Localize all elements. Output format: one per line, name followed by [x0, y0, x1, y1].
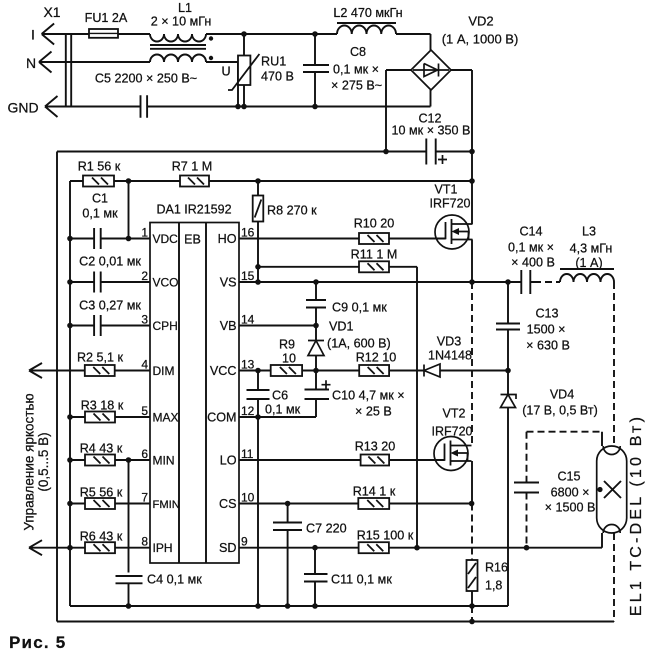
svg-text:0,1 мк ×: 0,1 мк × [508, 241, 554, 255]
svg-text:1: 1 [141, 226, 148, 240]
svg-text:(17 В, 0,5 Вт): (17 В, 0,5 Вт) [522, 404, 597, 418]
svg-text:SD: SD [219, 541, 237, 555]
svg-text:RU1: RU1 [261, 55, 286, 69]
svg-text:10 мк × 350 В: 10 мк × 350 В [392, 124, 471, 138]
svg-text:R6 43 к: R6 43 к [80, 530, 123, 544]
svg-text:DA1 IR21592: DA1 IR21592 [156, 203, 231, 217]
svg-text:LO: LO [220, 453, 237, 467]
svg-text:R8 270 к: R8 270 к [267, 204, 317, 218]
svg-text:R5 56 к: R5 56 к [80, 486, 123, 500]
svg-text:0,1 мк ×: 0,1 мк × [333, 63, 379, 77]
svg-text:C1: C1 [92, 192, 108, 206]
svg-text:VCO: VCO [153, 275, 179, 289]
svg-text:4,3 мГн: 4,3 мГн [570, 242, 613, 256]
svg-text:C3 0,27 мк: C3 0,27 мк [79, 299, 141, 313]
svg-text:C7 220: C7 220 [306, 522, 347, 536]
svg-text:L1: L1 [178, 1, 192, 15]
svg-text:0,1 мк: 0,1 мк [82, 207, 118, 221]
svg-text:(1 А): (1 А) [575, 256, 602, 270]
svg-text:R10 20: R10 20 [354, 217, 395, 231]
svg-text:CPH: CPH [153, 319, 178, 333]
svg-text:MAX: MAX [153, 410, 179, 424]
svg-text:L3: L3 [582, 225, 596, 239]
svg-text:R13 20: R13 20 [355, 440, 396, 454]
svg-text:R14 1 к: R14 1 к [353, 485, 396, 499]
svg-text:C4 0,1 мк: C4 0,1 мк [147, 573, 202, 587]
svg-text:HO: HO [218, 232, 237, 246]
svg-text:C11 0,1 мк: C11 0,1 мк [331, 573, 392, 587]
svg-text:EL1 TC-DEL (10 Вт): EL1 TC-DEL (10 Вт) [628, 414, 645, 616]
svg-text:VCC: VCC [210, 364, 237, 378]
svg-text:R15 100 к: R15 100 к [357, 529, 414, 543]
svg-text:R1 56 к: R1 56 к [78, 160, 121, 174]
svg-text:R11 1 M: R11 1 M [351, 248, 398, 262]
svg-text:C8: C8 [350, 45, 366, 59]
svg-text:× 630 В: × 630 В [526, 339, 570, 353]
svg-text:VD2: VD2 [468, 14, 493, 29]
svg-text:1,8: 1,8 [485, 579, 502, 593]
svg-text:2 × 10 мГн: 2 × 10 мГн [151, 15, 212, 29]
svg-text:× 275 В~: × 275 В~ [331, 79, 382, 93]
svg-text:15: 15 [241, 269, 255, 283]
svg-text:11: 11 [241, 447, 254, 461]
svg-text:R16: R16 [485, 561, 508, 575]
svg-text:× 25 В: × 25 В [355, 405, 392, 419]
svg-text:6: 6 [141, 447, 148, 461]
svg-text:EB: EB [184, 233, 201, 247]
svg-text:VS: VS [220, 275, 237, 289]
svg-text:(1 А, 1000 В): (1 А, 1000 В) [442, 32, 519, 47]
svg-text:VD3: VD3 [437, 335, 462, 349]
svg-text:1500 ×: 1500 × [527, 323, 566, 337]
svg-text:× 400 В: × 400 В [511, 256, 555, 270]
svg-text:C13: C13 [535, 307, 558, 321]
svg-text:N: N [26, 55, 36, 71]
svg-text:IRF720: IRF720 [432, 425, 473, 439]
svg-text:4: 4 [141, 358, 148, 372]
svg-text:VD4: VD4 [550, 388, 574, 402]
svg-text:16: 16 [241, 226, 255, 240]
svg-text:IRF720: IRF720 [430, 197, 471, 211]
svg-text:10: 10 [282, 352, 296, 366]
svg-text:L2 470 мкГн: L2 470 мкГн [333, 6, 402, 20]
svg-text:MIN: MIN [153, 453, 175, 467]
svg-text:R7 1 M: R7 1 M [172, 160, 213, 174]
svg-text:(1А, 600 В): (1А, 600 В) [327, 337, 391, 351]
svg-text:C6: C6 [272, 389, 288, 403]
svg-text:2: 2 [141, 269, 148, 283]
svg-text:Управление яркостью: Управление яркостью [22, 393, 37, 530]
svg-text:1N4148: 1N4148 [428, 349, 472, 363]
svg-text:VD1: VD1 [329, 320, 354, 334]
svg-text:R9: R9 [279, 338, 295, 352]
svg-text:9: 9 [241, 535, 248, 549]
svg-text:VT2: VT2 [443, 407, 466, 421]
svg-text:VB: VB [220, 319, 237, 333]
svg-text:C5 2200 × 250 В~: C5 2200 × 250 В~ [95, 72, 197, 86]
svg-text:GND: GND [7, 100, 38, 116]
svg-text:7: 7 [141, 491, 148, 505]
svg-text:X1: X1 [43, 4, 60, 20]
svg-text:Рис. 5: Рис. 5 [9, 633, 66, 652]
svg-text:13: 13 [241, 358, 255, 372]
svg-text:C14: C14 [519, 225, 542, 239]
svg-text:R2 5,1 к: R2 5,1 к [77, 351, 124, 365]
svg-text:5: 5 [141, 404, 148, 418]
svg-text:14: 14 [241, 313, 255, 327]
svg-text:C2 0,01 мк: C2 0,01 мк [79, 255, 141, 269]
svg-text:FMIN: FMIN [153, 499, 180, 511]
svg-text:(0,5...5 В): (0,5...5 В) [36, 432, 51, 491]
svg-text:C9 0,1 мк: C9 0,1 мк [332, 301, 387, 315]
svg-text:VDC: VDC [153, 232, 179, 246]
svg-text:R12 10: R12 10 [356, 351, 397, 365]
svg-text:× 1500 В: × 1500 В [545, 501, 596, 515]
svg-text:CS: CS [219, 497, 237, 511]
svg-text:I: I [31, 27, 35, 43]
svg-text:0,1 мк: 0,1 мк [265, 403, 301, 417]
svg-text:C15: C15 [557, 470, 580, 484]
svg-text:IPH: IPH [153, 541, 173, 555]
svg-text:DIM: DIM [153, 364, 175, 378]
svg-text:R4 43 к: R4 43 к [80, 442, 123, 456]
svg-text:470 В: 470 В [261, 70, 294, 84]
svg-text:C10 4,7 мк ×: C10 4,7 мк × [332, 389, 405, 403]
svg-text:10: 10 [241, 491, 255, 505]
svg-text:12: 12 [241, 404, 255, 418]
svg-text:6800 ×: 6800 × [551, 486, 590, 500]
svg-text:R3 18 к: R3 18 к [81, 399, 124, 413]
svg-text:COM: COM [207, 410, 236, 424]
svg-text:U: U [221, 65, 230, 79]
svg-text:8: 8 [141, 535, 148, 549]
svg-text:FU1 2А: FU1 2А [85, 11, 128, 25]
svg-text:3: 3 [141, 313, 148, 327]
svg-text:VT1: VT1 [435, 183, 458, 197]
